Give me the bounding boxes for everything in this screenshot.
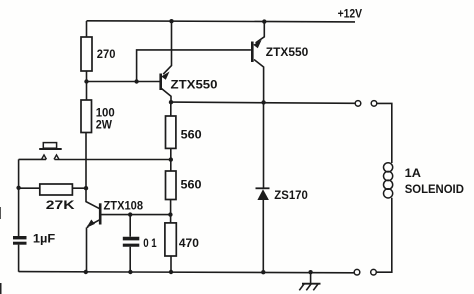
svg-text:270: 270 xyxy=(97,47,116,61)
svg-text:ZS170: ZS170 xyxy=(274,188,308,202)
svg-text:470: 470 xyxy=(179,236,199,250)
svg-text:0 1: 0 1 xyxy=(143,236,157,250)
svg-text:SOLENOID: SOLENOID xyxy=(405,182,465,196)
svg-text:+12V: +12V xyxy=(338,7,363,21)
svg-text:27K: 27K xyxy=(46,198,75,212)
svg-text:560: 560 xyxy=(181,128,202,142)
svg-text:1A: 1A xyxy=(405,166,422,180)
svg-text:2W: 2W xyxy=(96,117,113,131)
svg-text:ZTX550: ZTX550 xyxy=(171,78,218,92)
svg-text:560: 560 xyxy=(181,177,202,191)
svg-text:1µF: 1µF xyxy=(33,231,55,245)
svg-text:ZTX108: ZTX108 xyxy=(104,198,144,212)
svg-text:ZTX550: ZTX550 xyxy=(266,45,309,59)
